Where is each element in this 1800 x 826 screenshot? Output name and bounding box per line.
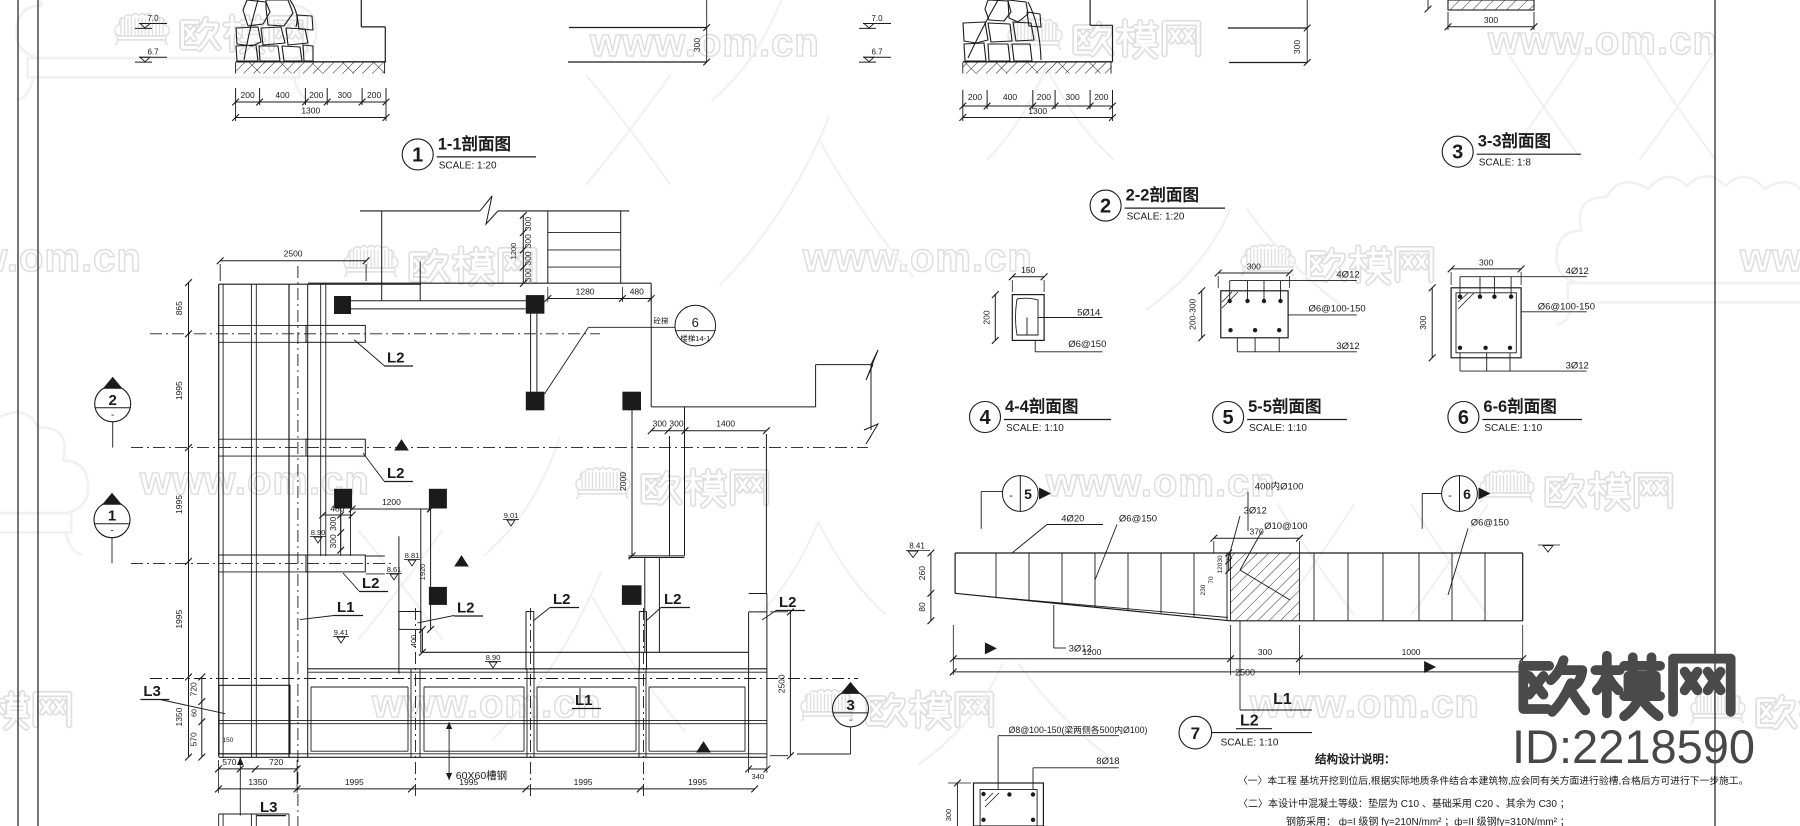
svg-text:L2: L2 — [664, 591, 682, 608]
svg-text:300: 300 — [328, 516, 338, 530]
svg-text:www.om.cn: www.om.cn — [0, 236, 142, 280]
svg-text:400: 400 — [409, 635, 418, 648]
svg-text:3: 3 — [846, 697, 854, 714]
rebar detail 6-6 — [1451, 288, 1521, 358]
svg-text:300: 300 — [669, 419, 683, 429]
svg-text:720: 720 — [189, 682, 199, 696]
svg-text:2-2剖面图: 2-2剖面图 — [1126, 185, 1199, 205]
svg-text:2500: 2500 — [1235, 668, 1255, 678]
svg-text:570: 570 — [189, 732, 199, 746]
svg-text:570: 570 — [222, 757, 236, 767]
rebar detail 5-5 — [1221, 291, 1288, 338]
svg-text:5Ø14: 5Ø14 — [1077, 308, 1100, 319]
svg-text:1200: 1200 — [509, 243, 518, 260]
svg-text:300: 300 — [523, 234, 533, 248]
svg-text:150: 150 — [1021, 265, 1035, 275]
svg-text:300: 300 — [944, 809, 953, 822]
svg-text:-: - — [1448, 490, 1452, 502]
svg-text:400: 400 — [1003, 92, 1017, 102]
svg-text:Ø6@150: Ø6@150 — [1068, 339, 1106, 350]
svg-text:2500: 2500 — [777, 674, 787, 693]
svg-text:1300: 1300 — [1028, 106, 1047, 116]
svg-text:300: 300 — [1066, 92, 1080, 102]
svg-text:340: 340 — [752, 772, 765, 781]
svg-text:6: 6 — [1458, 407, 1469, 429]
svg-text:200: 200 — [1037, 92, 1051, 102]
svg-text:2500: 2500 — [1229, 0, 1248, 2]
svg-text:www.om.cn: www.om.cn — [1487, 19, 1718, 63]
svg-text:9.41: 9.41 — [334, 628, 349, 637]
svg-text:8Ø18: 8Ø18 — [1096, 756, 1119, 767]
svg-text:200: 200 — [309, 90, 323, 100]
svg-text:300: 300 — [1258, 647, 1272, 657]
svg-text:60: 60 — [192, 709, 199, 717]
site logo — [1523, 656, 1730, 716]
svg-text:钢筋采用： ф=I 级钢 fy=210N/mm² ；ф: 钢筋采用： ф=I 级钢 fy=210N/mm² ；ф=II 级钢fy=310N… — [1286, 815, 1570, 826]
svg-text:200-300: 200-300 — [1188, 298, 1198, 329]
axis marker 1 — [94, 502, 130, 538]
rebar detail at section 7 — [974, 783, 1044, 826]
svg-text:SCALE: 1:20: SCALE: 1:20 — [439, 160, 497, 171]
svg-text:1400: 1400 — [716, 419, 735, 429]
svg-text:300: 300 — [1484, 15, 1498, 25]
staircase plan — [360, 210, 480, 212]
svg-text:200: 200 — [968, 92, 982, 102]
svg-text:砼梯: 砼梯 — [654, 316, 669, 326]
svg-text:80: 80 — [917, 602, 927, 612]
svg-text:1: 1 — [412, 144, 423, 166]
svg-text:2: 2 — [1100, 196, 1111, 218]
svg-text:1350: 1350 — [248, 777, 267, 787]
svg-text:1995: 1995 — [345, 777, 364, 787]
svg-text:865: 865 — [174, 301, 184, 315]
svg-text:5: 5 — [1024, 486, 1032, 502]
svg-text:8.81: 8.81 — [405, 551, 420, 560]
svg-text:300: 300 — [523, 268, 533, 282]
svg-text:300: 300 — [328, 534, 338, 548]
svg-text:300: 300 — [1292, 40, 1302, 54]
svg-text:1-1剖面图: 1-1剖面图 — [438, 133, 511, 153]
svg-text:4Ø12: 4Ø12 — [1566, 266, 1589, 277]
svg-text:-: - — [111, 410, 114, 421]
axis marker 3 — [833, 691, 869, 727]
svg-text:8.41: 8.41 — [909, 542, 925, 551]
svg-text:4-4剖面图: 4-4剖面图 — [1005, 396, 1078, 416]
wall step fragment right with 300 dim — [1228, 27, 1307, 29]
svg-text:www.om.cn: www.om.cn — [802, 236, 1033, 280]
svg-text:-: - — [849, 715, 852, 726]
svg-text:720: 720 — [269, 757, 283, 767]
svg-text:SCALE: 1:10: SCALE: 1:10 — [1249, 423, 1307, 434]
svg-text:1995: 1995 — [459, 777, 478, 787]
svg-text:www.om.cn: www.om.cn — [1739, 236, 1800, 280]
svg-text:30: 30 — [1217, 555, 1224, 563]
svg-text:300: 300 — [1479, 258, 1493, 268]
svg-text:6-6剖面图: 6-6剖面图 — [1483, 396, 1556, 416]
svg-text:L2: L2 — [362, 575, 380, 592]
svg-text:400: 400 — [275, 90, 289, 100]
bottom footing strip — [308, 668, 767, 670]
svg-text:1995: 1995 — [174, 609, 184, 628]
svg-text:6: 6 — [1463, 486, 1471, 502]
svg-text:1: 1 — [108, 508, 116, 525]
svg-text:Ø6@100-150: Ø6@100-150 — [1538, 302, 1595, 313]
svg-text:6.7: 6.7 — [871, 48, 883, 57]
svg-text:300: 300 — [1247, 262, 1261, 272]
svg-text:480: 480 — [630, 287, 644, 297]
svg-text:Ø6@150: Ø6@150 — [1471, 518, 1509, 529]
svg-text:L3: L3 — [260, 799, 278, 816]
svg-text:300: 300 — [523, 217, 533, 231]
svg-text:300: 300 — [523, 251, 533, 265]
column squares — [334, 296, 351, 314]
svg-text:L2: L2 — [1240, 713, 1259, 730]
svg-text:1000: 1000 — [1402, 647, 1421, 657]
svg-text:7.0: 7.0 — [871, 14, 883, 23]
svg-text:L3: L3 — [143, 683, 161, 700]
svg-text:7.0: 7.0 — [147, 14, 159, 23]
svg-text:L2: L2 — [779, 594, 797, 611]
svg-text:1280: 1280 — [576, 287, 595, 297]
svg-text:L2: L2 — [553, 591, 571, 608]
svg-text:5: 5 — [1223, 407, 1234, 429]
svg-text:300: 300 — [1418, 315, 1428, 329]
svg-text:结构设计说明：: 结构设计说明： — [1314, 752, 1396, 766]
svg-text:120: 120 — [1217, 562, 1224, 573]
svg-text:200: 200 — [982, 310, 992, 324]
svg-text:SCALE: 1:10: SCALE: 1:10 — [1484, 423, 1542, 434]
svg-text:3Ø12: 3Ø12 — [1244, 506, 1267, 517]
svg-text:3Ø12: 3Ø12 — [1336, 341, 1359, 352]
svg-text:L2: L2 — [387, 350, 405, 367]
svg-text:8.90: 8.90 — [311, 528, 326, 537]
cut marker 5 — [1002, 476, 1038, 512]
svg-text:1995: 1995 — [174, 495, 184, 514]
svg-text:Ø10@100: Ø10@100 — [1264, 521, 1307, 532]
beam elevation 5-5/6-6 — [955, 552, 1523, 554]
svg-text:3-3剖面图: 3-3剖面图 — [1478, 131, 1551, 151]
svg-text:www.om.cn: www.om.cn — [1045, 461, 1276, 505]
svg-text:300: 300 — [338, 90, 352, 100]
svg-text:9.01: 9.01 — [504, 511, 519, 520]
svg-text:260: 260 — [917, 566, 927, 580]
svg-text:4: 4 — [979, 407, 991, 429]
svg-text:480: 480 — [330, 504, 344, 514]
svg-text:150: 150 — [223, 737, 234, 744]
svg-text:L1: L1 — [1273, 691, 1292, 708]
svg-text:L1: L1 — [575, 692, 593, 709]
svg-text:SCALE: 1:20: SCALE: 1:20 — [1127, 212, 1185, 223]
svg-text:1995: 1995 — [688, 777, 707, 787]
svg-text:4Ø12: 4Ø12 — [1336, 270, 1359, 281]
svg-text:200: 200 — [241, 90, 255, 100]
svg-text:6: 6 — [692, 315, 699, 330]
svg-text:SCALE: 1:8: SCALE: 1:8 — [1479, 158, 1532, 169]
svg-text:SCALE: 1:10: SCALE: 1:10 — [1221, 738, 1279, 749]
svg-text:5-5剖面图: 5-5剖面图 — [1248, 396, 1321, 416]
svg-text:200: 200 — [1094, 92, 1108, 102]
svg-text:1200: 1200 — [382, 497, 401, 507]
svg-text:L2: L2 — [457, 600, 475, 617]
svg-text:8.61: 8.61 — [387, 565, 402, 574]
svg-text:3: 3 — [1452, 142, 1463, 164]
svg-text:1200: 1200 — [1082, 647, 1101, 657]
svg-text:2: 2 — [109, 392, 117, 409]
svg-text:6.7: 6.7 — [147, 48, 159, 57]
foundation plan — [218, 284, 220, 757]
svg-text:70: 70 — [1208, 576, 1215, 584]
axis marker 2 — [95, 386, 131, 422]
svg-text:ID:2218590: ID:2218590 — [1512, 720, 1755, 773]
svg-text:L1: L1 — [337, 599, 355, 616]
svg-text:1350: 1350 — [174, 707, 184, 726]
svg-text:www.om.cn: www.om.cn — [371, 682, 602, 726]
svg-text:400内Ø100: 400内Ø100 — [1255, 481, 1304, 493]
svg-text:1920: 1920 — [418, 564, 427, 581]
svg-text:200: 200 — [367, 90, 381, 100]
section 3-3 hatched slab — [1448, 0, 1534, 10]
svg-text:1995: 1995 — [574, 777, 593, 787]
svg-text:〈二〉本设计中混凝土等级：垫层为 C10 、基础采用 C2: 〈二〉本设计中混凝土等级：垫层为 C10 、基础采用 C20 、其余为 C30 … — [1238, 797, 1570, 810]
svg-text:2500: 2500 — [284, 249, 303, 259]
svg-text:3Ø12: 3Ø12 — [1566, 361, 1589, 372]
section label 7 — [1179, 716, 1212, 749]
svg-text:楼梯14-1: 楼梯14-1 — [680, 333, 710, 343]
svg-text:1300: 1300 — [301, 106, 320, 116]
svg-text:SCALE: 1:10: SCALE: 1:10 — [1006, 423, 1064, 434]
cut marker 6 — [1442, 476, 1478, 512]
svg-text:8.90: 8.90 — [486, 653, 501, 662]
svg-text:Ø6@150: Ø6@150 — [1119, 514, 1157, 525]
svg-text:7: 7 — [1191, 724, 1200, 743]
svg-text:2000: 2000 — [618, 472, 628, 491]
svg-text:Ø6@100-150: Ø6@100-150 — [1309, 304, 1366, 315]
svg-text:300: 300 — [653, 419, 667, 429]
wall step fragment with 300 dim — [569, 27, 707, 29]
svg-text:300: 300 — [692, 38, 702, 52]
svg-text:230: 230 — [1200, 584, 1207, 595]
svg-text:-: - — [110, 526, 113, 537]
sheet border — [17, 0, 19, 826]
svg-text:Ø8@100-150(梁两侧各500内Ø100): Ø8@100-150(梁两侧各500内Ø100) — [1009, 724, 1148, 735]
svg-text:L2: L2 — [387, 465, 405, 482]
rebar detail 5x14 — [1012, 295, 1044, 341]
svg-text:〈一〉本工程 基坑开挖到位后,根据实际地质条件结合本建筑物,: 〈一〉本工程 基坑开挖到位后,根据实际地质条件结合本建筑物,应会同有关方面进行验… — [1238, 774, 1749, 787]
svg-text:-: - — [1009, 490, 1013, 502]
svg-text:4Ø20: 4Ø20 — [1061, 514, 1084, 525]
svg-text:1995: 1995 — [174, 381, 184, 400]
